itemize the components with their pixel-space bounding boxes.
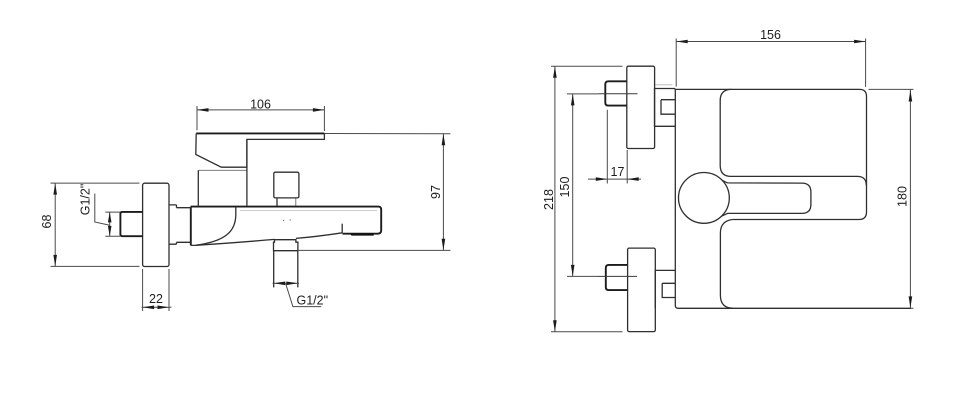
- svg-text:97: 97: [429, 185, 443, 199]
- svg-text:150: 150: [558, 177, 572, 198]
- svg-text:218: 218: [542, 189, 556, 210]
- svg-text:180: 180: [896, 186, 910, 207]
- svg-text:22: 22: [149, 292, 163, 306]
- svg-text:106: 106: [250, 97, 271, 111]
- svg-text:17: 17: [611, 165, 625, 179]
- svg-text:G1/2": G1/2": [297, 293, 329, 307]
- svg-text:156: 156: [760, 28, 781, 42]
- svg-text:G1/2": G1/2": [79, 184, 93, 216]
- svg-text:68: 68: [40, 215, 54, 229]
